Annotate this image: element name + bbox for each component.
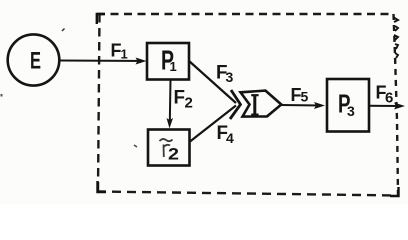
boundary corner bottom-left: [98, 181, 107, 192]
system boundary dashed box: [97, 14, 398, 196]
svg-text:2: 2: [168, 145, 179, 164]
merge symbol body: [241, 91, 282, 117]
label I (serif, drawn): [251, 95, 258, 114]
wire F4: [190, 106, 236, 142]
svg-text:5: 5: [301, 89, 309, 105]
process P3 box: [327, 79, 369, 132]
wire F1 arrow: [60, 60, 143, 63]
boundary corner bottom-right: [390, 187, 399, 196]
wire F5 arrow: [282, 104, 321, 107]
svg-text:2: 2: [185, 95, 193, 112]
wire F2 arrow: [169, 80, 172, 123]
merge chevron: [230, 90, 241, 119]
stray speck near circle top: [62, 29, 65, 32]
boundary right edge artifact marks: [393, 17, 398, 58]
boundary corner top-left: [97, 14, 105, 24]
svg-text:4: 4: [226, 130, 234, 146]
stray speck left of P2: [134, 145, 137, 147]
svg-text:3: 3: [347, 103, 355, 119]
svg-text:1: 1: [121, 47, 128, 62]
svg-text:3: 3: [226, 69, 234, 85]
external entity E (circle): [8, 34, 60, 85]
wire F6 arrow: [369, 105, 400, 107]
svg-text:1: 1: [170, 59, 177, 74]
process P1 box: [147, 43, 189, 80]
stray speck left margin: [1, 94, 3, 97]
label P2 (smudged r-tilde 2): [160, 139, 173, 141]
svg-text:F: F: [174, 88, 186, 109]
process P2 box: [148, 130, 190, 166]
svg-text:6: 6: [385, 90, 393, 107]
wire F3: [189, 61, 237, 104]
svg-text:E: E: [30, 48, 41, 75]
